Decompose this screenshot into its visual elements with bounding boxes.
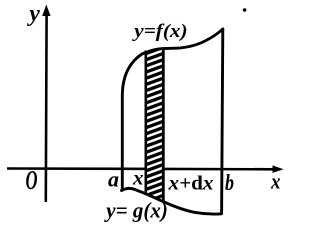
svg-text:O: O [26, 165, 38, 195]
svg-text:a: a [108, 167, 119, 192]
svg-text:b: b [225, 170, 234, 195]
svg-text:y= g(x): y= g(x) [103, 198, 167, 223]
svg-text:y=f(x): y=f(x) [131, 21, 187, 42]
svg-text:x: x [132, 166, 144, 190]
svg-text:y: y [26, 1, 40, 27]
svg-text:x: x [270, 169, 280, 194]
svg-text:x+dx: x+dx [167, 173, 213, 195]
